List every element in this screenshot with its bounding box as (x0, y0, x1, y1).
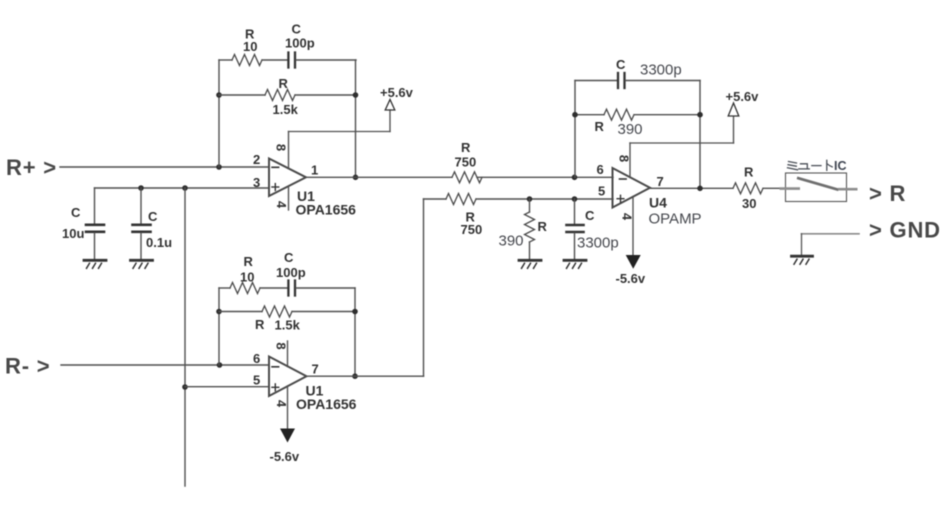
power -5.6v (U1b) (270, 429, 300, 465)
svg-text:5: 5 (598, 184, 605, 199)
svg-text:C: C (148, 209, 158, 224)
svg-text:8: 8 (616, 155, 631, 162)
junction R-/feedback (217, 362, 223, 368)
wire GND stub (802, 234, 860, 256)
wire U1b feedback left vertical (218, 288, 220, 365)
resistor R 10 (U1a) (219, 27, 287, 66)
resistor R 1.5k (U1b) (219, 306, 355, 333)
wire U4 feedback left vertical (574, 81, 576, 178)
svg-text:-5.6v: -5.6v (270, 449, 300, 464)
svg-text:+5.6v: +5.6v (726, 89, 760, 104)
junction fb left/R1.5k (216, 92, 222, 98)
svg-text:390: 390 (499, 233, 524, 250)
switch inside mute IC (780, 178, 858, 190)
svg-text:R+ >: R+ > (6, 155, 57, 180)
svg-text:> R: > R (869, 181, 906, 206)
junction U4 fb right/output (697, 186, 703, 192)
svg-text:IC: IC (834, 159, 847, 173)
wire R- input to pin6 (61, 364, 269, 366)
svg-text:OPA1656: OPA1656 (296, 396, 357, 412)
mute IC box (786, 173, 847, 202)
svg-text:OPAMP: OPAMP (649, 211, 702, 228)
wire U1a feedback left vertical (218, 60, 220, 167)
svg-text:7: 7 (657, 174, 664, 189)
capacitor C 10u (62, 188, 104, 259)
wire bias vertical to lower opamp pin5 (184, 188, 186, 486)
svg-text:30: 30 (742, 196, 756, 211)
wire +5.6v supply to U1a pin8 (289, 110, 391, 132)
wire U1b output (307, 199, 424, 376)
svg-text:4: 4 (274, 400, 289, 408)
svg-text:+5.6v: +5.6v (380, 85, 414, 100)
power +5.6v (U4) (726, 89, 760, 116)
svg-text:> GND: > GND (869, 218, 941, 243)
svg-text:3300p: 3300p (640, 62, 682, 79)
junction fb right/R1.5k (353, 92, 359, 98)
svg-text:U4: U4 (649, 195, 667, 211)
capacitor C 100p (U1a) (285, 22, 356, 68)
svg-text:100p: 100p (285, 36, 315, 51)
junction C0.1u tap (138, 185, 144, 191)
junction bias/pin5 (182, 384, 188, 390)
junction bias vertical tap (182, 185, 188, 191)
svg-text:8: 8 (274, 144, 289, 151)
svg-text:10: 10 (243, 39, 257, 54)
junction U4 fb left / pin6 (572, 175, 578, 181)
junction fb left/R1.5k (U1b) (216, 309, 222, 315)
resistor R 30 (733, 165, 786, 212)
junction R+/feedback (216, 164, 222, 170)
junction fb right/output (U1b) (352, 373, 358, 379)
junction fb right/R390 (697, 112, 703, 118)
wire U4 output (650, 187, 733, 189)
wire R+ input to pin2 (60, 166, 269, 168)
svg-text:R- >: R- > (5, 354, 50, 379)
svg-text:OPA1656: OPA1656 (296, 202, 357, 218)
svg-text:6: 6 (253, 351, 260, 366)
junction fb right/R1.5k (U1b) (352, 309, 358, 315)
svg-text:C: C (585, 208, 595, 223)
svg-text:7: 7 (312, 362, 319, 377)
svg-text:-5.6v: -5.6v (616, 271, 646, 286)
svg-text:R: R (255, 317, 265, 332)
svg-text:3: 3 (253, 175, 260, 190)
svg-text:R: R (538, 219, 548, 234)
wire U1a feedback right vertical (355, 60, 357, 177)
svg-text:C: C (71, 205, 81, 220)
svg-text:C: C (284, 250, 294, 265)
wire pin5 from bias vertical (185, 386, 269, 388)
svg-text:4: 4 (274, 201, 289, 209)
op-amp U1 (top) (253, 132, 356, 218)
svg-text:100p: 100p (276, 265, 306, 280)
svg-text:R: R (461, 140, 471, 155)
op-amp U1 (bottom) (253, 341, 357, 429)
svg-text:R: R (595, 119, 605, 134)
power +5.6v (U1a) (380, 85, 414, 110)
svg-text:5: 5 (253, 373, 260, 388)
junction R390 tap (527, 196, 533, 202)
ground (C3300p) (564, 260, 586, 268)
svg-text:390: 390 (618, 121, 643, 138)
junction fb right/output (353, 175, 359, 181)
ground (C0.1u) (131, 260, 153, 268)
wire U1a output (306, 176, 452, 178)
junction C3300p tap (572, 196, 578, 202)
svg-text:R: R (744, 165, 754, 180)
svg-text:8: 8 (274, 342, 289, 349)
junction fb left/R390 (572, 112, 578, 118)
svg-text:R: R (279, 76, 289, 91)
svg-text:10: 10 (240, 270, 254, 285)
svg-text:2: 2 (253, 152, 260, 167)
svg-text:750: 750 (461, 222, 483, 237)
ground (GND output) (792, 256, 813, 264)
resistor R 10 (U1b) (219, 254, 287, 294)
capacitor C 0.1u (133, 188, 173, 259)
svg-text:0.1u: 0.1u (146, 235, 172, 250)
resistor R 750 (bottom) (424, 194, 614, 238)
svg-text:1: 1 (311, 163, 318, 178)
svg-text:3300p: 3300p (577, 235, 619, 252)
ground (C10u) (84, 260, 106, 268)
svg-text:10u: 10u (62, 226, 84, 241)
ground (R390) (519, 260, 541, 268)
power -5.6v (U4) (616, 255, 646, 286)
resistor R 390 (U4 feedback) (575, 109, 700, 138)
resistor R 1.5k (U1a) (219, 76, 356, 117)
svg-text:1.5k: 1.5k (275, 318, 301, 333)
wire U1b feedback right vertical (354, 288, 356, 376)
wire U4 feedback right vertical (699, 81, 701, 189)
mute IC label ミュートIC (788, 159, 847, 173)
resistor R 750 (top) (452, 140, 613, 183)
svg-text:750: 750 (455, 155, 477, 170)
capacitor C 3300p (shunt) (567, 199, 619, 259)
wire +5.6v supply to U4 pin8 (630, 117, 734, 143)
capacitor C 100p (U1b) (276, 250, 355, 296)
wire pin3 bias rail (95, 187, 270, 189)
svg-text:C: C (292, 22, 302, 37)
capacitor C 3300p (U4 feedback) (575, 57, 700, 88)
svg-text:C: C (616, 57, 626, 72)
svg-text:6: 6 (597, 162, 604, 177)
op-amp U4 (597, 143, 702, 255)
svg-text:4: 4 (620, 213, 635, 221)
resistor R 390 (shunt) (499, 199, 548, 259)
svg-text:R: R (244, 254, 254, 269)
svg-text:1.5k: 1.5k (273, 102, 299, 117)
